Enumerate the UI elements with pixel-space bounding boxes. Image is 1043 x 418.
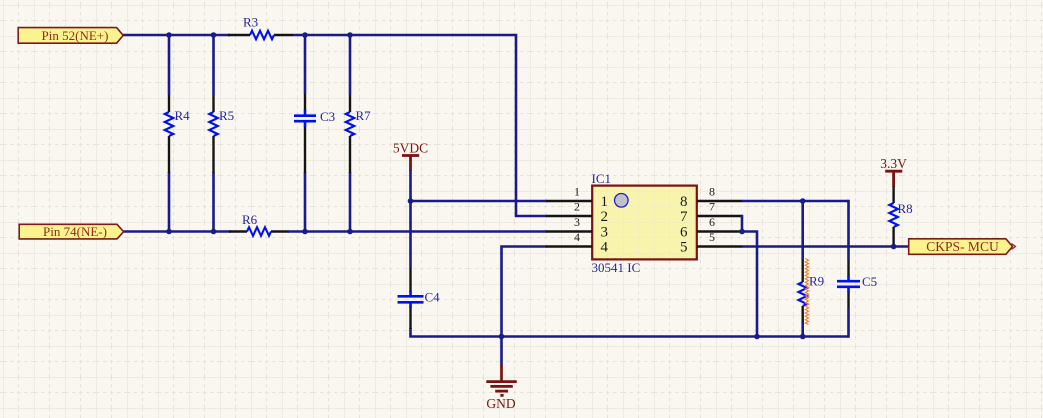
ground GND symbol	[486, 365, 517, 396]
pin 6 stub of IC1	[697, 230, 743, 233]
resistor R8	[889, 203, 898, 227]
pin 4 stub of IC1	[546, 245, 592, 248]
junction 6-7 drop/bottom bus	[754, 334, 760, 340]
svg-text:8: 8	[709, 185, 715, 199]
svg-text:3: 3	[574, 215, 580, 229]
junction R9 top	[800, 198, 806, 204]
port CKPS- MCU	[909, 239, 1013, 255]
pin 3 stub of IC1	[546, 230, 592, 233]
wire: pin 5 output row to port	[742, 245, 910, 248]
svg-text:CKPS- MCU: CKPS- MCU	[926, 239, 999, 254]
svg-text:C3: C3	[320, 109, 335, 124]
wire: R9 column	[801, 201, 804, 337]
capacitor C3	[294, 110, 316, 127]
wire: NE- row left	[124, 230, 232, 233]
pin 8 stub of IC1	[697, 200, 743, 203]
svg-text:R7: R7	[356, 108, 372, 123]
svg-text:5VDC: 5VDC	[393, 141, 428, 156]
op-amp / chip IC1 body	[592, 186, 697, 260]
wire: R7 column	[349, 34, 352, 232]
junction R8/output row	[891, 244, 897, 250]
svg-text:R8: R8	[898, 201, 913, 216]
svg-text:Pin 52(NE+): Pin 52(NE+)	[42, 28, 109, 43]
wire: NE- row to pin 3	[288, 230, 547, 233]
wire: NE+ top bus left	[123, 34, 230, 37]
pin 7 stub of IC1	[697, 215, 743, 218]
svg-text:7: 7	[680, 209, 688, 225]
junction C3/NE- row	[302, 229, 308, 235]
svg-text:R6: R6	[242, 212, 258, 227]
resistor R6	[247, 227, 271, 236]
power 3.3V bar	[885, 171, 902, 187]
wire: R5 column	[212, 34, 215, 232]
resistor R5 pins	[212, 95, 214, 173]
resistor R5	[209, 112, 218, 136]
resistor R4	[165, 112, 174, 136]
svg-text:C4: C4	[425, 290, 441, 305]
svg-text:6: 6	[680, 224, 688, 240]
wire: pin 8 to R9/C5 tops	[742, 200, 849, 203]
svg-text:30541 IC: 30541 IC	[592, 260, 641, 275]
junction R4/NE- row	[166, 229, 172, 235]
svg-text:5: 5	[709, 230, 715, 244]
IC1 pin-1 marker circle	[615, 194, 629, 208]
junction R5/top bus	[211, 32, 217, 38]
svg-text:R3: R3	[243, 15, 258, 30]
wire: ground bottom bus	[409, 335, 848, 338]
svg-text:4: 4	[574, 230, 580, 244]
capacitor C3 pins	[304, 94, 306, 173]
svg-text:R5: R5	[219, 108, 234, 123]
pin 1 stub of IC1	[546, 200, 592, 203]
junction R7/top bus	[347, 32, 353, 38]
resistor R7 pins	[349, 95, 351, 173]
svg-text:5: 5	[680, 239, 688, 255]
svg-text:7: 7	[709, 200, 715, 214]
junction R7/NE- row	[347, 229, 353, 235]
power 5VDC bar	[402, 156, 419, 171]
wire: pin 7 drop to pin 6	[741, 215, 744, 232]
pin 2 stub of IC1	[546, 215, 592, 218]
port Pin 74(NE-)	[19, 224, 123, 239]
svg-text:R4: R4	[175, 108, 191, 123]
resistor R9	[798, 282, 807, 306]
resistor R3	[250, 31, 274, 40]
svg-text:R9: R9	[809, 274, 824, 289]
wire: 5VDC stem	[409, 170, 412, 337]
wire: R4 column	[168, 34, 171, 232]
resistor R8 pins	[892, 186, 894, 246]
wire: net 6/7 drop to ground bus	[742, 232, 757, 337]
resistor R3 leads	[228, 34, 293, 36]
resistor R9 pins	[802, 260, 804, 322]
resistor R6 leads	[229, 230, 289, 232]
svg-text:3.3V: 3.3V	[880, 156, 907, 171]
junction pin7/pin6	[739, 229, 745, 235]
svg-text:C5: C5	[862, 274, 877, 289]
svg-text:2: 2	[574, 200, 580, 214]
pin 5 stub of IC1	[697, 245, 743, 248]
port Pin 52(NE+)	[18, 28, 123, 44]
svg-text:8: 8	[680, 194, 688, 210]
svg-text:4: 4	[601, 239, 609, 255]
wire: pin 4 to GND column	[502, 245, 548, 365]
wire: 5VDC rail to pin 1	[411, 200, 548, 203]
wire: top bus right of R3, riser to pin2	[293, 35, 547, 216]
junction R5/NE- row	[211, 229, 217, 235]
svg-text:Pin 74(NE-): Pin 74(NE-)	[43, 224, 107, 239]
svg-text:6: 6	[709, 215, 715, 229]
svg-text:3: 3	[601, 224, 609, 240]
junction GND/bottom bus	[499, 334, 505, 340]
ERC error marker squiggle on R9	[805, 259, 808, 325]
wire: C3 column	[304, 34, 307, 232]
capacitor C5	[837, 276, 860, 293]
resistor R4 pins	[168, 95, 170, 173]
wire: C5 column	[847, 200, 850, 338]
svg-text:1: 1	[574, 185, 580, 199]
capacitor C4 pins	[409, 267, 411, 329]
svg-text:2: 2	[601, 209, 609, 225]
junction R4/top bus	[166, 32, 172, 38]
capacitor C4	[398, 291, 424, 309]
port arrow tail chevron	[1012, 244, 1016, 250]
capacitor C5 pins	[847, 261, 849, 308]
svg-text:1: 1	[601, 194, 609, 210]
junction C3/top bus	[302, 32, 308, 38]
resistor R7	[346, 112, 355, 136]
svg-text:IC1: IC1	[592, 171, 612, 186]
junction R9/bottom bus	[800, 334, 806, 340]
junction 5VDC/pin1	[408, 198, 414, 204]
svg-text:GND: GND	[486, 396, 515, 411]
